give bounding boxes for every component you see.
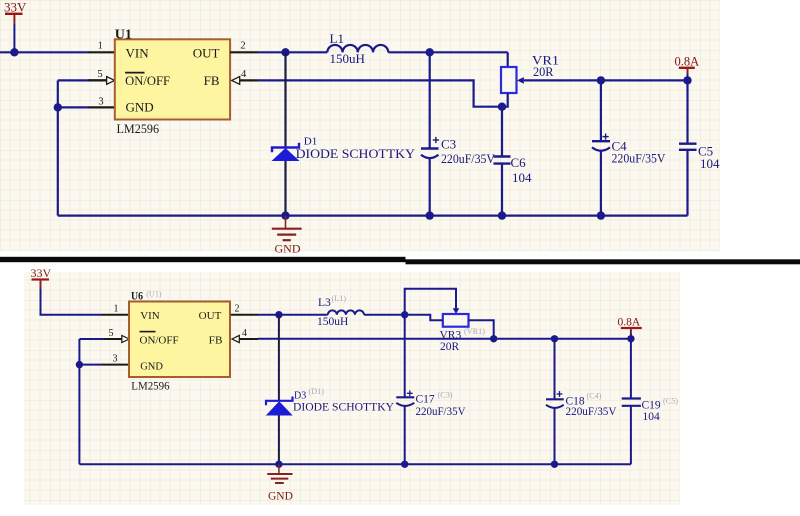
junction 33V/VIN — [10, 48, 18, 56]
capacitor C17 — [396, 390, 466, 418]
resistor VR3 — [440, 314, 486, 353]
junction C17/VR3 node — [401, 311, 408, 318]
svg-text:4: 4 — [242, 328, 247, 339]
pin 2 (U6) — [231, 304, 258, 315]
ground — [272, 216, 302, 256]
svg-text:C17: C17 — [416, 394, 435, 406]
svg-text:(D1): (D1) — [309, 387, 325, 396]
svg-text:33V: 33V — [31, 266, 52, 280]
capacitor C19 — [622, 397, 679, 423]
svg-text:L3: L3 — [318, 297, 331, 309]
pin 3 — [58, 97, 115, 108]
capacitor C5 — [679, 143, 720, 171]
bottom schematic sheet background — [24, 272, 680, 505]
junction pin5/pin3 — [54, 103, 62, 111]
junction C18/rail — [551, 461, 558, 468]
power terminal 0.8A — [675, 55, 700, 81]
svg-text:220uF/35V: 220uF/35V — [416, 406, 467, 418]
inductor L1 — [327, 31, 388, 66]
pin 5 (U6) — [79, 328, 129, 343]
svg-text:OUT: OUT — [199, 310, 222, 322]
wire pin5 down — [78, 339, 80, 365]
capacitor C18 — [546, 391, 617, 418]
wire C6 to rail — [501, 164, 503, 216]
svg-text:GND: GND — [268, 491, 293, 503]
wire C4 to rail — [600, 151, 602, 216]
wire OUT to L3 — [258, 314, 328, 316]
svg-text:VIN: VIN — [140, 310, 160, 322]
svg-text:20R: 20R — [440, 341, 460, 353]
junction switch node — [281, 48, 289, 56]
wire switch node to D3 — [278, 315, 280, 401]
junction C4 — [597, 76, 605, 84]
svg-text:D3: D3 — [294, 391, 306, 402]
pin 2 — [230, 41, 258, 53]
divider bar right — [406, 259, 800, 264]
svg-text:C6: C6 — [511, 155, 527, 170]
svg-text:5: 5 — [97, 69, 102, 80]
wire VR3 right lead — [469, 320, 494, 339]
wire VR1 bottom lead — [502, 93, 508, 107]
wire pin5 to gnd net — [57, 80, 59, 107]
wire C19 branch — [630, 339, 632, 399]
pin 5 — [58, 69, 115, 85]
svg-text:1: 1 — [114, 304, 119, 315]
top schematic sheet background — [0, 0, 720, 251]
svg-text:150uH: 150uH — [330, 51, 365, 66]
svg-text:104: 104 — [643, 411, 661, 423]
junction pin5/pin3 (bottom) — [76, 361, 83, 368]
wire C5 to rail — [686, 150, 688, 216]
svg-text:LM2596: LM2596 — [117, 121, 160, 136]
svg-text:(C5): (C5) — [663, 397, 678, 406]
svg-text:ON/OFF: ON/OFF — [140, 335, 179, 347]
op-amp U1 LM2596 body — [115, 28, 230, 136]
junction VR3 lead — [490, 335, 497, 342]
wire ground rail (bottom) — [79, 463, 631, 465]
junction C19/terminal — [627, 335, 634, 342]
pin 1 (U6) — [102, 304, 130, 315]
pin 1 — [88, 41, 115, 53]
svg-text:GND: GND — [126, 99, 154, 114]
svg-text:ON/OFF: ON/OFF — [125, 73, 170, 88]
svg-text:104: 104 — [700, 156, 720, 171]
svg-text:VR3: VR3 — [440, 330, 462, 342]
pin 3 (U6) — [79, 353, 129, 364]
junction C17/rail — [401, 461, 408, 468]
wire ground rail — [58, 215, 688, 217]
junction D3 switch node — [275, 311, 282, 318]
wire C5 branch — [686, 80, 688, 143]
capacitor C3 — [421, 137, 496, 166]
wire C3 branch — [429, 52, 431, 148]
wire C4 branch — [600, 80, 602, 141]
wire switch node down to D1 — [284, 52, 286, 147]
junction C18 — [551, 335, 558, 342]
svg-text:U1: U1 — [115, 28, 132, 43]
wire VR3 wiper loop — [405, 289, 456, 315]
power terminal 0.8A (bottom) — [618, 317, 642, 339]
svg-text:220uF/35V: 220uF/35V — [612, 151, 667, 166]
wire down to VR1 — [507, 52, 509, 67]
wire C6 branch — [501, 107, 503, 157]
svg-text:2: 2 — [235, 304, 240, 315]
svg-text:DIODE SCHOTTKY: DIODE SCHOTTKY — [293, 402, 395, 414]
wire C18 to rail — [554, 408, 556, 464]
wire D1 anode to rail — [284, 161, 286, 216]
junction C3/rail — [426, 211, 434, 219]
wire D3 anode to rail — [278, 416, 280, 465]
svg-text:1: 1 — [98, 41, 103, 52]
svg-text:(C3): (C3) — [438, 390, 453, 399]
svg-text:FB: FB — [209, 335, 223, 347]
pin 4 — [232, 69, 258, 85]
wire left vertical to bottom rail — [57, 107, 59, 215]
wire left vertical to rail (bottom) — [78, 365, 80, 465]
junction FB/VR1 — [498, 103, 506, 111]
wire C18 branch — [554, 339, 556, 400]
svg-text:FB: FB — [204, 73, 220, 88]
svg-text:(U1): (U1) — [146, 290, 162, 299]
op-amp U6 LM2596 body — [129, 288, 230, 392]
svg-text:5: 5 — [109, 328, 114, 339]
svg-text:220uF/35V: 220uF/35V — [441, 151, 496, 166]
resistor VR1 — [501, 52, 559, 93]
svg-text:(C4): (C4) — [587, 391, 602, 400]
capacitor C6 — [494, 155, 533, 185]
divider bar left — [0, 257, 406, 262]
svg-text:OUT: OUT — [193, 45, 220, 60]
svg-text:4: 4 — [241, 69, 247, 80]
wire C17 branch — [404, 315, 406, 398]
svg-text:U6: U6 — [131, 288, 143, 302]
svg-text:220uF/35V: 220uF/35V — [566, 406, 618, 418]
svg-text:3: 3 — [113, 353, 118, 364]
svg-text:C19: C19 — [642, 399, 661, 411]
power terminal 33V — [4, 0, 27, 52]
capacitor C4 — [592, 134, 666, 166]
wire C3 to rail — [429, 158, 431, 215]
svg-text:C3: C3 — [441, 137, 456, 152]
junction D1/rail — [281, 211, 289, 219]
ground (bottom) — [267, 464, 293, 502]
diode D3 schottky — [266, 387, 395, 416]
svg-text:150uH: 150uH — [317, 316, 348, 328]
wire VIN input — [0, 51, 88, 53]
diode D1 schottky — [272, 136, 416, 161]
wire OUT to inductor — [258, 51, 327, 53]
svg-text:VIN: VIN — [126, 45, 150, 60]
junction D3/rail — [275, 461, 282, 468]
wire VR3 left lead — [405, 315, 443, 321]
junction C6/rail — [498, 211, 506, 219]
svg-text:LM2596: LM2596 — [131, 380, 170, 392]
svg-text:33V: 33V — [4, 0, 27, 15]
wire inductor to VR1 — [388, 51, 507, 53]
wiper arrow VR3 — [453, 308, 460, 314]
power terminal 33V (bottom) — [31, 266, 102, 315]
svg-text:GND: GND — [140, 360, 163, 372]
wire FB / output rail (bottom) — [258, 338, 631, 340]
wire L3 to node — [364, 314, 405, 316]
svg-text:DIODE SCHOTTKY: DIODE SCHOTTKY — [296, 146, 416, 161]
svg-text:0.8A: 0.8A — [618, 317, 641, 329]
inductor L3 — [317, 294, 364, 328]
svg-text:(L1): (L1) — [332, 294, 347, 303]
wire output rail — [524, 79, 688, 81]
wire C17 to rail — [404, 406, 406, 464]
svg-text:20R: 20R — [533, 64, 554, 79]
svg-text:2: 2 — [240, 41, 245, 52]
svg-text:0.8A: 0.8A — [675, 55, 700, 69]
junction C3 — [426, 48, 434, 56]
svg-text:L1: L1 — [330, 31, 344, 46]
junction C4/rail — [597, 211, 605, 219]
svg-text:3: 3 — [98, 97, 103, 108]
svg-text:GND: GND — [275, 242, 301, 256]
svg-text:104: 104 — [512, 170, 532, 185]
pin 4 (U6) — [232, 328, 258, 343]
wire C19 to rail — [630, 406, 632, 465]
wire FB feedback — [258, 80, 502, 106]
junction C5 — [683, 76, 691, 84]
svg-text:(VR1): (VR1) — [464, 327, 485, 336]
